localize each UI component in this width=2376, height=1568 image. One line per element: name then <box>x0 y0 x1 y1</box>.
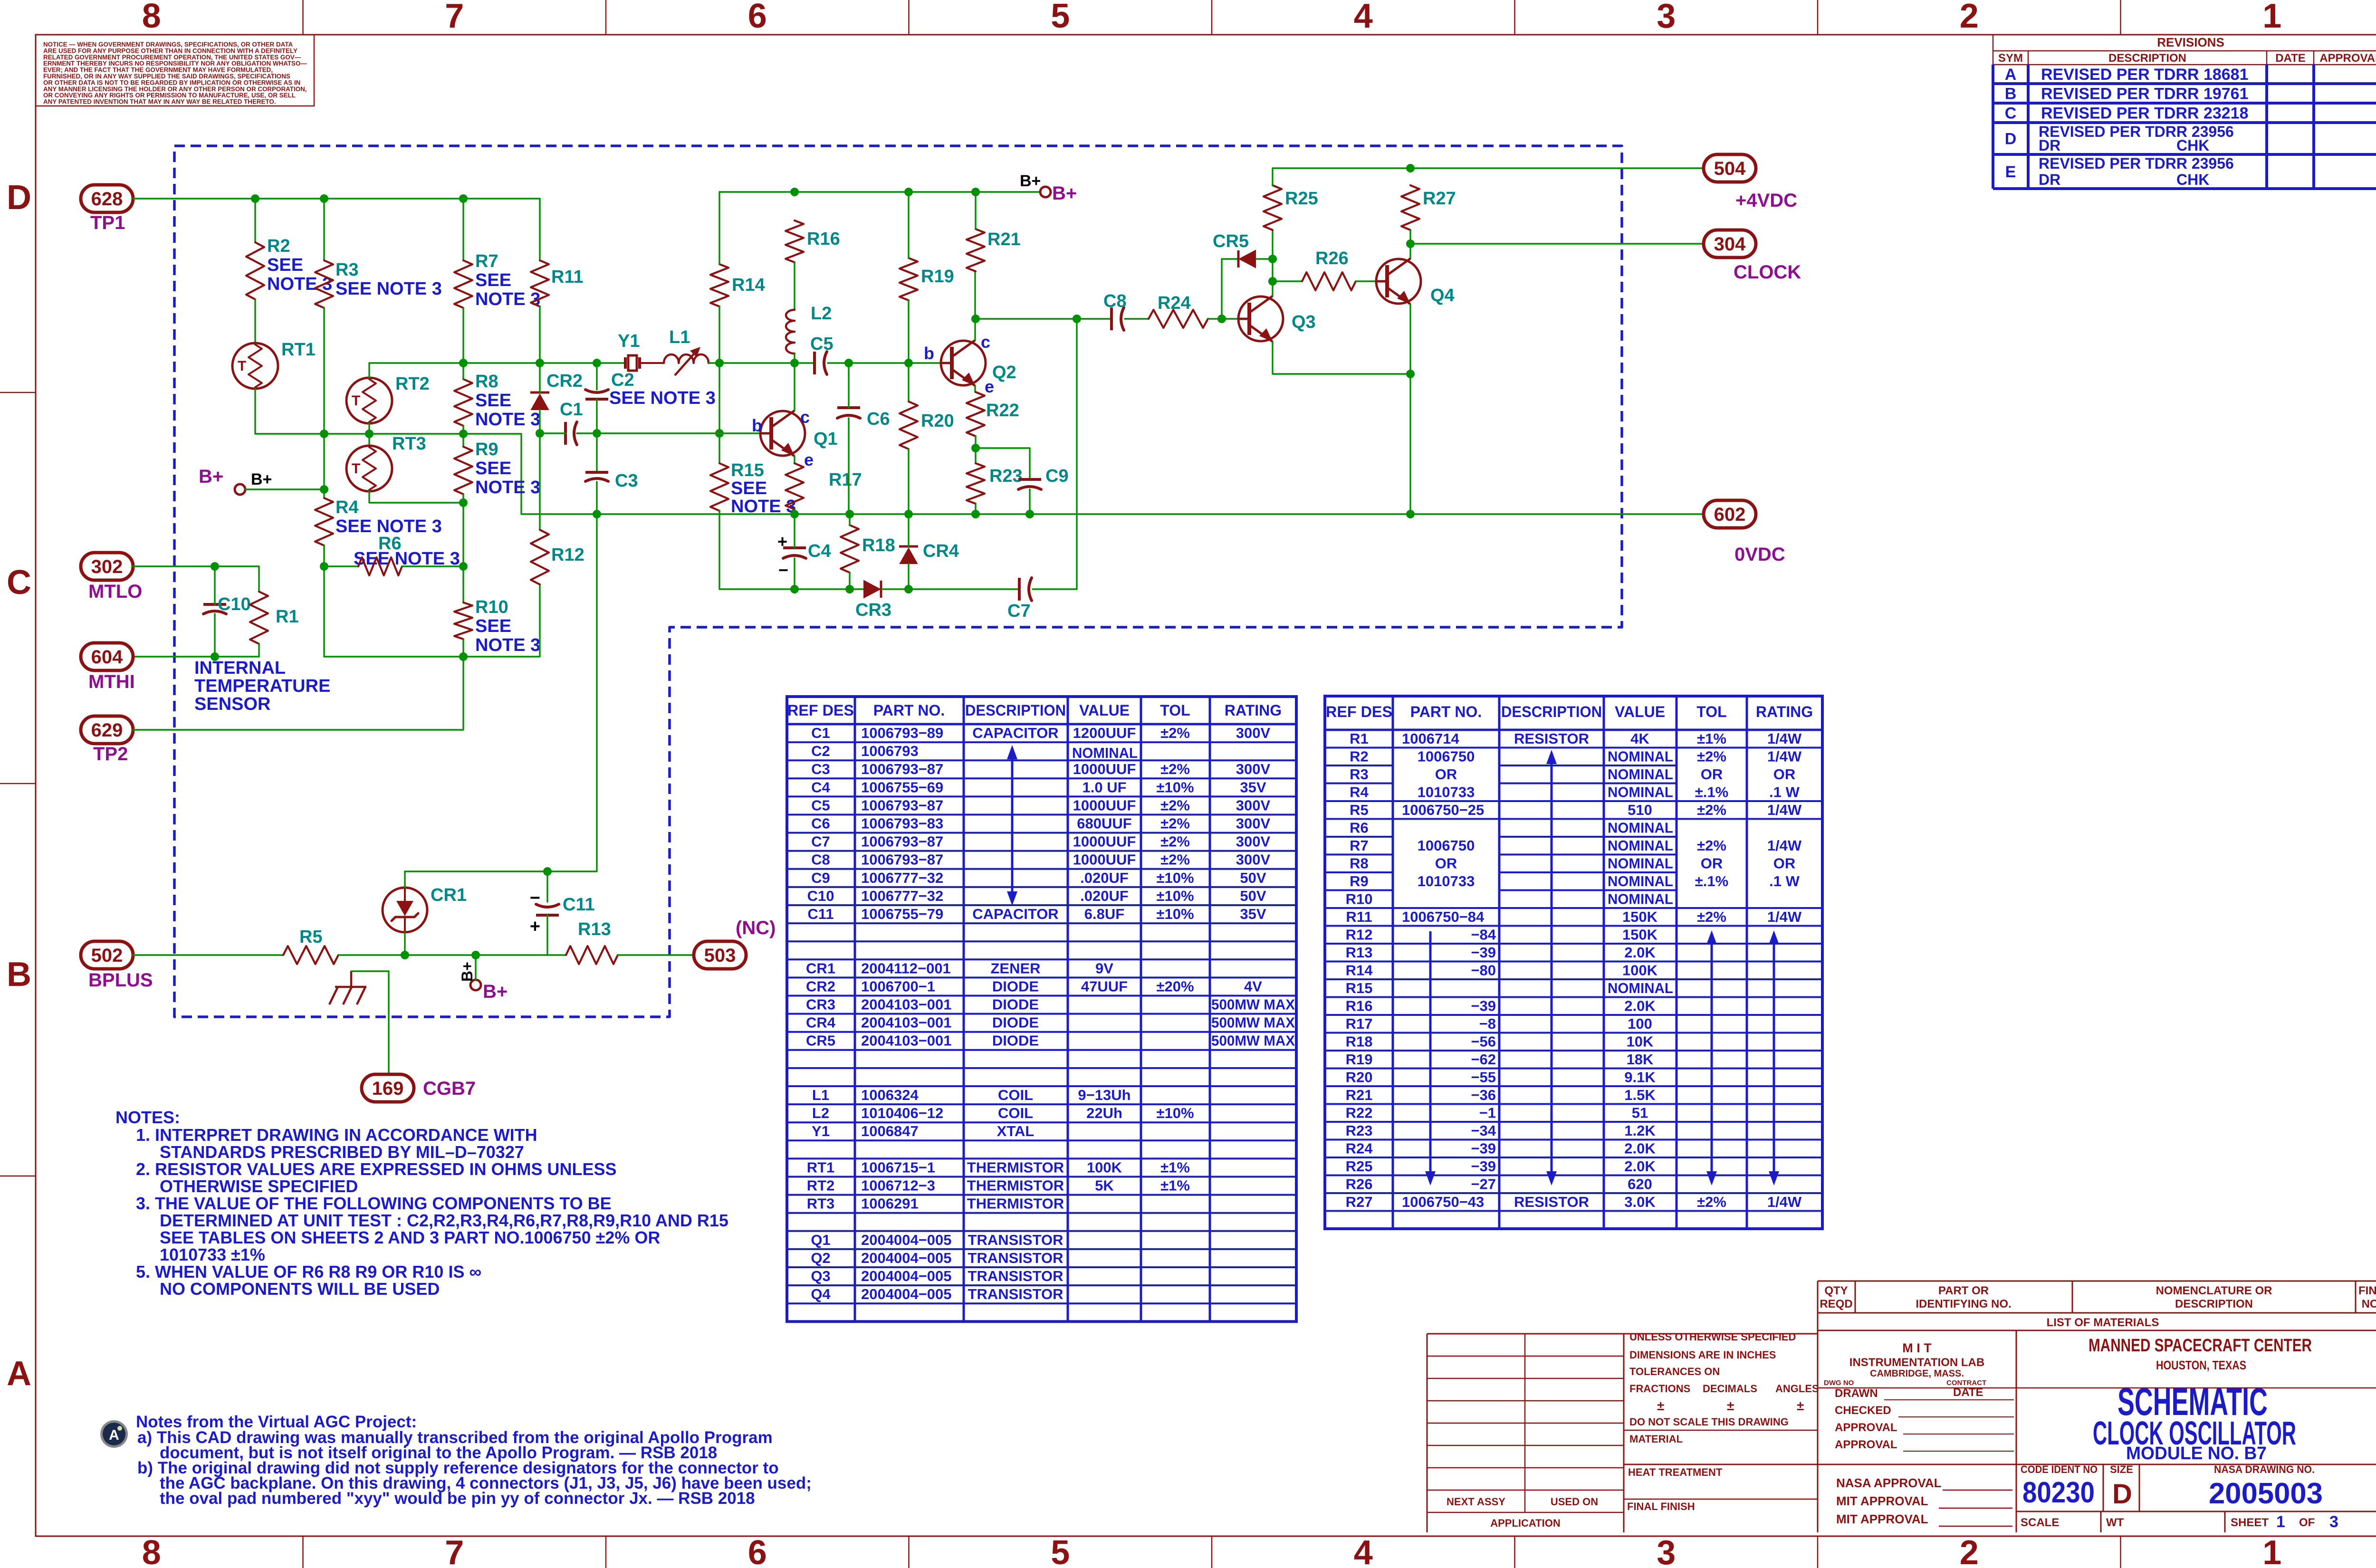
parts table resistors <box>1325 696 1822 1229</box>
svg-text:NASA APPROVAL: NASA APPROVAL <box>1836 1476 1942 1490</box>
net TP2 wire <box>133 657 463 730</box>
svg-text:R1: R1 <box>1350 730 1369 747</box>
svg-text:R2: R2 <box>267 236 290 256</box>
svg-text:e: e <box>804 450 814 469</box>
svg-text:MODULE NO. B7: MODULE NO. B7 <box>2126 1444 2267 1463</box>
svg-text:C5: C5 <box>810 334 834 354</box>
svg-text:SEE TABLES ON SHEETS 2 AND 3 P: SEE TABLES ON SHEETS 2 AND 3 PART NO.100… <box>160 1228 660 1247</box>
wire R8 top <box>462 363 464 379</box>
connector pad 504 (+4VDC) <box>1704 154 1756 182</box>
svg-text:DIODE: DIODE <box>992 978 1039 994</box>
svg-text:C4: C4 <box>808 541 831 561</box>
svg-text:−39: −39 <box>1471 944 1496 961</box>
svg-text:+: + <box>530 917 540 937</box>
svg-text:B+: B+ <box>251 470 272 488</box>
virtual AGC logo <box>100 1420 128 1448</box>
revisions table header <box>1993 35 2376 65</box>
wire C11 top <box>546 871 548 902</box>
svg-text:1006777−32: 1006777−32 <box>861 870 943 886</box>
svg-text:80230: 80230 <box>2022 1476 2095 1509</box>
wire R21 top <box>975 192 976 229</box>
svg-text:628: 628 <box>91 189 123 210</box>
wire ground to CGB7 <box>351 971 389 1074</box>
net B+ rail wire <box>719 191 1040 192</box>
svg-text:PART NO.: PART NO. <box>873 702 945 719</box>
svg-text:Q1: Q1 <box>814 429 838 449</box>
svg-text:R18: R18 <box>1346 1033 1373 1050</box>
svg-text:B+: B+ <box>459 962 476 982</box>
svg-text:C5: C5 <box>811 797 830 813</box>
wire C9 branch <box>976 448 1030 479</box>
resistor R19 <box>900 258 918 300</box>
wire R2-RT1 <box>254 299 256 343</box>
svg-text:SCALE: SCALE <box>2021 1516 2059 1529</box>
junction Q2col/C8row <box>971 315 980 323</box>
svg-text:A: A <box>2005 66 2017 84</box>
transistor Q2 <box>941 341 986 385</box>
svg-text:1006700−1: 1006700−1 <box>861 978 935 994</box>
svg-text:2005003: 2005003 <box>2209 1477 2323 1510</box>
zone tick marks <box>302 0 304 35</box>
svg-text:CR1: CR1 <box>806 960 835 976</box>
svg-text:MANNED SPACECRAFT CENTER: MANNED SPACECRAFT CENTER <box>2089 1336 2312 1356</box>
svg-text:300V: 300V <box>1236 815 1271 832</box>
svg-text:3. THE VALUE OF THE FOLLOWING: 3. THE VALUE OF THE FOLLOWING COMPONENTS… <box>136 1194 612 1213</box>
svg-text:R22: R22 <box>1346 1105 1373 1121</box>
svg-text:CR1: CR1 <box>431 885 467 905</box>
wire C10 top <box>214 566 215 604</box>
svg-text:CR3: CR3 <box>855 600 891 620</box>
svg-text:R9: R9 <box>1350 873 1369 889</box>
svg-text:ANY PATENTED INVENTION THAT MA: ANY PATENTED INVENTION THAT MAY IN ANY W… <box>43 98 276 105</box>
connector pad 602 (0VDC) <box>1704 500 1756 528</box>
resistor R10 <box>454 602 472 639</box>
svg-text:R6: R6 <box>1350 820 1369 836</box>
wire B+ feed <box>245 488 324 490</box>
resistor R17 <box>786 463 804 509</box>
svg-text:TRANSISTOR: TRANSISTOR <box>968 1250 1063 1266</box>
svg-text:R13: R13 <box>578 919 611 939</box>
svg-text:Q4: Q4 <box>811 1286 831 1302</box>
connector pad 604 (MTHI) <box>81 643 133 670</box>
svg-text:C8: C8 <box>811 851 830 868</box>
svg-text:680UUF: 680UUF <box>1077 815 1131 832</box>
svg-text:RT2: RT2 <box>807 1177 835 1194</box>
svg-text:300V: 300V <box>1236 851 1271 868</box>
junction rail/R17C4 <box>790 510 799 518</box>
revisions table rows <box>1993 82 2376 85</box>
wire C9-rail <box>1029 489 1030 514</box>
svg-text:1000UUF: 1000UUF <box>1073 797 1136 813</box>
chassis ground symbol <box>350 971 353 987</box>
svg-text:1006755−79: 1006755−79 <box>861 906 943 922</box>
svg-text:DESCRIPTION: DESCRIPTION <box>2108 52 2186 65</box>
svg-text:R1: R1 <box>276 607 299 627</box>
wire colB R4 section <box>323 434 325 498</box>
svg-text:OR: OR <box>1435 766 1457 783</box>
svg-text:NOMINAL: NOMINAL <box>1072 745 1138 761</box>
svg-text:DIMENSIONS ARE IN INCHES: DIMENSIONS ARE IN INCHES <box>1629 1349 1776 1361</box>
wire R9-R10 <box>462 494 464 602</box>
svg-text:SHEET: SHEET <box>2231 1516 2269 1529</box>
svg-text:OR: OR <box>1701 855 1723 872</box>
wire C4 top <box>794 514 795 548</box>
svg-text:LIST OF MATERIALS: LIST OF MATERIALS <box>2047 1316 2159 1329</box>
wire R20-rail <box>908 449 909 514</box>
svg-text:NO COMPONENTS WILL BE USED: NO COMPONENTS WILL BE USED <box>160 1279 440 1299</box>
svg-text:R22: R22 <box>986 401 1019 421</box>
svg-text:1006777−32: 1006777−32 <box>861 888 943 904</box>
svg-text:1010733: 1010733 <box>1418 784 1475 801</box>
svg-text:100: 100 <box>1628 1015 1652 1032</box>
svg-text:CR4: CR4 <box>923 541 959 561</box>
svg-text:CAPACITOR: CAPACITOR <box>972 906 1058 922</box>
thermistor RT3 <box>346 446 392 491</box>
junction osc/L2 Q1col <box>790 359 799 367</box>
wire R8-R9 <box>462 426 464 447</box>
junction rail/C6R18 <box>845 510 854 518</box>
svg-text:Q3: Q3 <box>811 1268 830 1284</box>
svg-text:1.2K: 1.2K <box>1624 1122 1656 1139</box>
wire R1 bottom <box>133 644 259 657</box>
connector pad 169 (CGB7) <box>362 1074 414 1102</box>
svg-text:1000UUF: 1000UUF <box>1073 851 1136 868</box>
svg-text:b: b <box>752 416 762 435</box>
svg-text:1006793−83: 1006793−83 <box>861 815 943 832</box>
junction rail/C3 <box>593 510 601 518</box>
wire R14 column <box>719 192 720 264</box>
capacitor C1 <box>564 422 567 445</box>
svg-text:VALUE: VALUE <box>1079 702 1130 719</box>
svg-text:2004004−005: 2004004−005 <box>861 1286 952 1302</box>
wire Q2 collector <box>974 271 976 340</box>
svg-text:NEXT ASSY: NEXT ASSY <box>1447 1496 1505 1508</box>
svg-text:2.0K: 2.0K <box>1624 1158 1656 1175</box>
svg-text:629: 629 <box>91 720 123 741</box>
diode CR3 <box>864 581 880 598</box>
svg-text:4V: 4V <box>1244 978 1262 994</box>
svg-text:the oval pad numbered "xyy" wo: the oval pad numbered "xyy" would be pin… <box>160 1489 755 1508</box>
svg-text:NOMINAL: NOMINAL <box>1608 820 1673 836</box>
junction osc/C2 <box>593 359 601 367</box>
svg-text:T: T <box>352 393 360 409</box>
wire R22-R23 <box>975 436 976 463</box>
svg-text:c: c <box>800 407 810 427</box>
svg-text:±2%: ±2% <box>1160 851 1190 868</box>
svg-text:2: 2 <box>1960 1534 1979 1568</box>
svg-text:620: 620 <box>1628 1176 1652 1193</box>
svg-text:WT: WT <box>2106 1516 2124 1529</box>
connector pad 503 (NC) <box>694 941 746 969</box>
svg-text:APPROVAL: APPROVAL <box>2319 52 2376 65</box>
wire R14-R15 <box>719 306 720 463</box>
wire R23-rail <box>975 504 976 514</box>
wire R24-Q3base <box>1208 318 1238 319</box>
svg-text:1/4W: 1/4W <box>1767 802 1802 818</box>
svg-text:RESISTOR: RESISTOR <box>1514 730 1589 747</box>
svg-text:HOUSTON, TEXAS: HOUSTON, TEXAS <box>2156 1358 2246 1372</box>
svg-text:R12: R12 <box>551 545 584 565</box>
svg-text:R16: R16 <box>1346 998 1373 1014</box>
svg-text:1000UUF: 1000UUF <box>1073 761 1136 777</box>
svg-text:1006750−43: 1006750−43 <box>1402 1194 1484 1210</box>
svg-text:9−13Uh: 9−13Uh <box>1078 1087 1131 1103</box>
svg-text:R18: R18 <box>862 535 895 555</box>
capacitor C5 <box>813 352 816 374</box>
svg-text:c: c <box>981 332 990 352</box>
svg-text:R10: R10 <box>1346 891 1373 908</box>
svg-text:USED ON: USED ON <box>1551 1496 1598 1508</box>
coil L1 (variable) <box>664 354 709 363</box>
wire Q1 collector <box>794 363 795 411</box>
svg-text:THERMISTOR: THERMISTOR <box>967 1159 1064 1176</box>
svg-text:51: 51 <box>1632 1105 1648 1121</box>
svg-text:8: 8 <box>142 0 161 35</box>
svg-text:NOMINAL: NOMINAL <box>1608 855 1673 872</box>
svg-text:1010733 ±1%: 1010733 ±1% <box>160 1245 265 1264</box>
resistor R26 <box>1302 272 1356 290</box>
svg-text:R19: R19 <box>921 267 954 287</box>
wire R19 top <box>908 192 909 258</box>
svg-text:7: 7 <box>445 0 464 35</box>
svg-text:MATERIAL: MATERIAL <box>1629 1433 1683 1445</box>
wire R10 bottom <box>462 639 464 657</box>
wire C10 bottom <box>214 614 215 657</box>
resistor R22 <box>967 392 985 436</box>
svg-text:+: + <box>777 532 787 551</box>
svg-text:VALUE: VALUE <box>1615 703 1665 720</box>
svg-text:100K: 100K <box>1087 1159 1122 1176</box>
svg-text:B: B <box>7 956 31 994</box>
wire R18 bottom <box>849 573 850 589</box>
svg-text:CHK: CHK <box>2176 171 2209 188</box>
svg-text:.1 W: .1 W <box>1769 873 1800 889</box>
svg-text:R17: R17 <box>829 470 862 490</box>
svg-text:1: 1 <box>2262 0 2281 35</box>
svg-text:REVISIONS: REVISIONS <box>2157 35 2224 49</box>
junction MTLO/C10 <box>211 562 219 571</box>
wire Q2 emitter <box>974 386 976 392</box>
svg-text:R17: R17 <box>1346 1015 1373 1032</box>
svg-text:IDENTIFYING NO.: IDENTIFYING NO. <box>1916 1298 2011 1310</box>
svg-text:b: b <box>924 344 934 363</box>
wire CR2 bottom <box>539 410 540 433</box>
svg-text:300V: 300V <box>1236 725 1271 741</box>
svg-text:NOTE 3: NOTE 3 <box>475 289 540 309</box>
svg-text:R25: R25 <box>1285 189 1318 209</box>
svg-text:R5: R5 <box>299 927 323 947</box>
svg-text:SEE: SEE <box>731 478 767 498</box>
svg-text:−8: −8 <box>1479 1015 1496 1032</box>
wire R26-Q4base <box>1356 280 1376 282</box>
svg-text:REVISED PER TDRR 23218: REVISED PER TDRR 23218 <box>2041 105 2249 123</box>
svg-text:−: − <box>778 560 788 580</box>
svg-text:5. WHEN VALUE OF R6 R8 R9 OR R: 5. WHEN VALUE OF R6 R8 R9 OR R10 IS ∞ <box>136 1262 481 1281</box>
svg-text:DIODE: DIODE <box>992 996 1039 1013</box>
svg-text:R27: R27 <box>1423 189 1456 209</box>
junction TP1/R2 <box>251 194 259 203</box>
svg-text:C1: C1 <box>560 400 583 420</box>
junction Q1base/R14R15 <box>715 429 724 438</box>
wire RT2 top <box>368 363 370 378</box>
svg-text:.1 W: .1 W <box>1769 784 1800 801</box>
svg-text:±1%: ±1% <box>1697 730 1726 747</box>
svg-text:CR5: CR5 <box>1213 231 1249 251</box>
svg-text:DR: DR <box>2039 171 2060 188</box>
resistor R2 <box>246 242 264 299</box>
svg-text:D: D <box>7 179 31 217</box>
wire RT1-row <box>255 389 521 434</box>
svg-text:SEE: SEE <box>475 391 511 411</box>
svg-text:1/4W: 1/4W <box>1767 837 1802 854</box>
svg-text:RT1: RT1 <box>281 340 316 360</box>
ditto arrow right table part no <box>1429 931 1432 1173</box>
svg-text:1/4W: 1/4W <box>1767 730 1802 747</box>
svg-text:35V: 35V <box>1240 906 1266 922</box>
svg-text:CHECKED: CHECKED <box>1835 1404 1891 1417</box>
svg-text:±2%: ±2% <box>1160 833 1190 850</box>
svg-text:Q3: Q3 <box>1292 312 1316 332</box>
svg-text:R26: R26 <box>1346 1176 1373 1193</box>
svg-text:SEE NOTE 3: SEE NOTE 3 <box>609 388 716 408</box>
svg-text:±.1%: ±.1% <box>1695 784 1728 801</box>
thermistor RT2 <box>346 378 392 423</box>
svg-text:NOMINAL: NOMINAL <box>1608 748 1673 765</box>
svg-text:9V: 9V <box>1095 960 1113 976</box>
junction CR2/C1row <box>536 429 544 438</box>
pin B+ feed circle <box>235 484 245 495</box>
svg-text:RATING: RATING <box>1225 702 1282 719</box>
svg-text:CHK: CHK <box>2176 137 2209 154</box>
svg-text:OR: OR <box>1701 766 1723 783</box>
svg-text:SEE NOTE 3: SEE NOTE 3 <box>335 279 442 299</box>
svg-text:500MW MAX: 500MW MAX <box>1211 996 1295 1013</box>
svg-text:B+: B+ <box>199 466 223 487</box>
svg-text:C9: C9 <box>811 870 830 886</box>
svg-text:±2%: ±2% <box>1160 815 1190 832</box>
svg-text:REF DES: REF DES <box>1326 703 1392 720</box>
pin B+ bottom circle <box>470 980 481 990</box>
svg-text:C: C <box>7 564 31 602</box>
svg-text:TP2: TP2 <box>93 744 128 765</box>
svg-text:NOMINAL: NOMINAL <box>1608 891 1673 908</box>
svg-text:Q1: Q1 <box>811 1232 830 1248</box>
svg-text:R24: R24 <box>1158 293 1191 313</box>
svg-text:−80: −80 <box>1471 962 1496 979</box>
svg-text:DIODE: DIODE <box>992 1014 1039 1031</box>
junction colN/CR5 <box>1268 255 1277 263</box>
ditto arrow right table description <box>1551 762 1553 1173</box>
svg-text:1006793: 1006793 <box>861 743 919 759</box>
junction B+/R19 <box>904 188 913 196</box>
svg-text:R15: R15 <box>731 460 764 480</box>
resistor R23 <box>967 463 985 504</box>
transistor Q1 <box>760 411 805 456</box>
svg-text:CR2: CR2 <box>806 978 835 994</box>
wire B+ bottom stub <box>475 955 476 980</box>
svg-text:5: 5 <box>1051 1534 1070 1568</box>
svg-text:INTERNAL: INTERNAL <box>194 658 286 678</box>
svg-text:NOMINAL: NOMINAL <box>1608 837 1673 854</box>
svg-text:−62: −62 <box>1471 1051 1496 1068</box>
svg-text:R13: R13 <box>1346 944 1373 961</box>
junction rail/C9 <box>1025 510 1034 518</box>
svg-text:CODE IDENT NO: CODE IDENT NO <box>2021 1463 2098 1475</box>
crystal Y1 <box>624 357 627 369</box>
svg-text:±: ± <box>1797 1398 1804 1413</box>
svg-text:1010406−12: 1010406−12 <box>861 1105 943 1121</box>
capacitor C3 <box>585 471 608 474</box>
svg-text:DATE: DATE <box>1953 1386 1983 1399</box>
wire colE to R12 <box>539 433 540 530</box>
connector pad 304 (CLOCK) <box>1704 230 1756 258</box>
junction row913/R8R9 <box>459 430 468 438</box>
svg-text:2004112−001: 2004112−001 <box>861 960 951 976</box>
svg-text:e: e <box>985 377 994 396</box>
svg-text:T: T <box>352 461 360 477</box>
junction rail/R23 <box>971 510 980 518</box>
junction R10/chainrow <box>459 652 468 661</box>
svg-text:3.0K: 3.0K <box>1624 1194 1656 1210</box>
svg-text:ZENER: ZENER <box>990 960 1040 976</box>
svg-text:COIL: COIL <box>998 1105 1033 1121</box>
junction B+/R16 <box>790 188 799 196</box>
svg-text:R23: R23 <box>1346 1122 1373 1139</box>
svg-text:7: 7 <box>445 1534 464 1568</box>
capacitor C10 <box>203 603 226 606</box>
svg-text:R25: R25 <box>1346 1158 1373 1175</box>
wire bottom row left <box>795 588 864 590</box>
wire CR5 left leg <box>1222 259 1238 319</box>
svg-text:TRANSISTOR: TRANSISTOR <box>968 1286 1063 1302</box>
resistor R7 <box>454 260 472 308</box>
resistor R14 <box>710 264 728 306</box>
junction colB/R6row <box>320 562 328 571</box>
svg-text:C4: C4 <box>811 779 830 795</box>
svg-text:ANGLES: ANGLES <box>1775 1383 1819 1395</box>
svg-text:3: 3 <box>1657 1534 1676 1568</box>
svg-text:−27: −27 <box>1471 1176 1496 1193</box>
svg-text:35V: 35V <box>1240 779 1266 795</box>
svg-text:−55: −55 <box>1471 1069 1496 1086</box>
resistor R24 <box>1149 310 1208 328</box>
svg-text:−1: −1 <box>1479 1105 1496 1121</box>
capacitor C9 <box>1018 478 1041 481</box>
resistor R6 <box>358 557 402 575</box>
svg-text:DATE: DATE <box>2275 52 2306 65</box>
svg-text:DR: DR <box>2039 137 2060 154</box>
capacitor C6 <box>837 406 860 409</box>
junction colN/R26 <box>1268 277 1277 286</box>
svg-text:1010733: 1010733 <box>1418 873 1475 889</box>
svg-text:1/4W: 1/4W <box>1767 1194 1802 1210</box>
junction CR1row/C11 <box>543 867 552 876</box>
svg-text:NOMENCLATURE OR: NOMENCLATURE OR <box>2156 1284 2272 1297</box>
junction bottomrow/R18 <box>845 585 854 593</box>
svg-text:C7: C7 <box>811 833 830 850</box>
svg-text:2.0K: 2.0K <box>1624 998 1656 1014</box>
svg-text:DWG NO: DWG NO <box>1824 1379 1854 1387</box>
svg-text:NO.: NO. <box>2362 1298 2376 1310</box>
capacitor C4 (polarized) <box>783 546 806 549</box>
government notice block <box>36 35 314 106</box>
svg-text:1006750: 1006750 <box>1418 748 1475 765</box>
svg-text:R14: R14 <box>1346 962 1373 979</box>
svg-text:R20: R20 <box>921 411 954 431</box>
svg-text:L2: L2 <box>811 304 832 324</box>
thermistor RT1 <box>232 343 278 389</box>
svg-text:2004103−001: 2004103−001 <box>861 1014 952 1031</box>
